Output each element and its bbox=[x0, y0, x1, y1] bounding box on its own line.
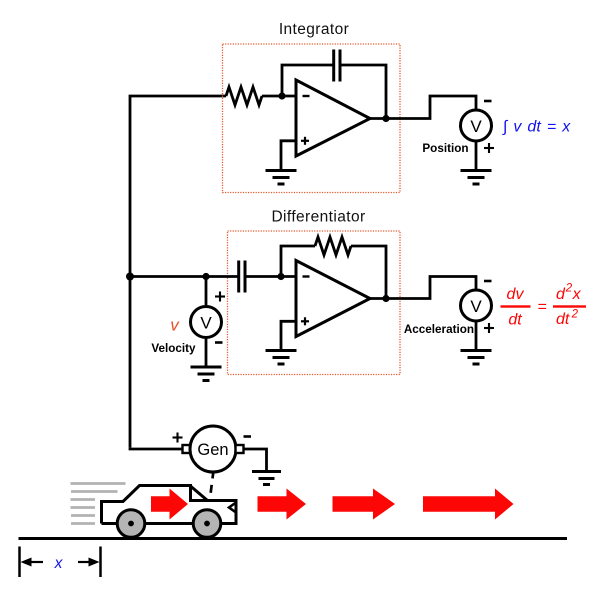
pin label minus U1 bbox=[303, 95, 310, 97]
svg-text:Gen: Gen bbox=[197, 441, 228, 459]
car right notch bbox=[229, 503, 236, 513]
svg-text:Position: Position bbox=[422, 142, 468, 155]
arrow 1 bbox=[258, 489, 307, 520]
wire integrator feedback right leg bbox=[340, 65, 386, 119]
svg-text:dt: dt bbox=[508, 312, 522, 329]
car rear window diagonal bbox=[191, 487, 208, 501]
label minus Position bbox=[484, 100, 492, 103]
op-amp U1 bbox=[296, 80, 370, 156]
ground Position bbox=[461, 171, 492, 185]
wire U2 noninverting to ground bbox=[281, 321, 296, 350]
wire differentiator output to Acceleration meter bbox=[370, 277, 476, 299]
capacitor C1 (integrator feedback) bbox=[334, 50, 340, 82]
resistor R2 (differentiator feedback) bbox=[315, 237, 351, 255]
svg-text:v: v bbox=[170, 316, 180, 335]
voltmeter Acceleration bbox=[461, 290, 492, 321]
svg-text:∫v dt = x: ∫v dt = x bbox=[502, 119, 571, 136]
wire integrator output to Position meter bbox=[370, 96, 476, 119]
wire Position meter to ground bbox=[475, 141, 478, 171]
node bus-differentiator tap bbox=[126, 273, 134, 281]
terminal square generator - bbox=[236, 445, 244, 453]
arrow 2 bbox=[333, 489, 396, 520]
wire differentiator feedback left leg bbox=[281, 246, 315, 277]
wire generator to ground bbox=[244, 449, 267, 472]
wheel rear bbox=[193, 510, 221, 538]
label minus generator bbox=[244, 435, 252, 438]
arrow 3 bbox=[423, 489, 514, 520]
terminal square generator + bbox=[183, 445, 191, 453]
dimension tick left bbox=[18, 547, 21, 578]
car body bbox=[102, 486, 237, 524]
wire integrator feedback left leg bbox=[282, 65, 333, 96]
node integrator output bbox=[382, 115, 389, 122]
node differentiator summing junction bbox=[277, 273, 284, 280]
svg-text:V: V bbox=[470, 117, 482, 136]
op-amp U2 bbox=[296, 261, 370, 337]
svg-text:x: x bbox=[54, 555, 64, 572]
node integrator summing junction bbox=[278, 92, 285, 99]
label plus Velocity bbox=[215, 292, 225, 302]
wire R1 to op-amp inverting input bbox=[262, 95, 296, 98]
differentiator dotted box bbox=[228, 231, 401, 375]
integrator dotted box bbox=[223, 44, 401, 193]
dimension arrow right bbox=[78, 561, 91, 563]
wire main bus vertical and integrator input horizontal bbox=[130, 96, 226, 448]
wire bus to generator bbox=[129, 448, 183, 451]
resistor R1 (integrator input) bbox=[226, 87, 262, 105]
formula dv/dt = d2x/dt2 bbox=[501, 283, 587, 329]
pin label plus U2 bbox=[301, 317, 309, 325]
ground U2 bbox=[266, 351, 297, 365]
svg-text:Acceleration: Acceleration bbox=[404, 323, 474, 336]
pin label minus U2 bbox=[303, 275, 310, 277]
svg-text:Velocity: Velocity bbox=[151, 342, 196, 355]
ground generator bbox=[252, 472, 281, 485]
wire tap to Velocity meter bbox=[205, 277, 208, 308]
wire Acceleration meter to ground bbox=[475, 321, 478, 351]
dashed link generator to wheel bbox=[207, 471, 214, 524]
generator Gen bbox=[190, 426, 236, 472]
pin label plus U1 bbox=[301, 137, 309, 145]
dimension tick right bbox=[99, 547, 102, 578]
ground Velocity bbox=[191, 367, 222, 381]
label plus Acceleration bbox=[484, 323, 494, 333]
svg-text:Differentiator: Differentiator bbox=[271, 209, 365, 226]
node differentiator output bbox=[382, 295, 389, 302]
svg-text:Integrator: Integrator bbox=[279, 21, 349, 38]
wire C2 to op-amp inverting input bbox=[245, 275, 296, 278]
wire bus to C2 bbox=[130, 275, 238, 278]
label plus Position bbox=[484, 143, 494, 153]
wire U1 noninverting to ground bbox=[281, 141, 296, 171]
label plus generator bbox=[173, 433, 183, 443]
voltmeter Velocity bbox=[191, 307, 222, 338]
svg-text:dt2: dt2 bbox=[556, 309, 579, 329]
wire Velocity meter to ground bbox=[205, 338, 208, 368]
capacitor C2 (differentiator input) bbox=[239, 261, 245, 293]
ground Acceleration bbox=[461, 351, 492, 365]
wheel front bbox=[117, 510, 145, 538]
svg-text:V: V bbox=[470, 297, 482, 316]
label minus Velocity bbox=[215, 341, 223, 344]
voltmeter Position bbox=[461, 110, 492, 141]
svg-text:dv: dv bbox=[507, 286, 525, 303]
arrow in car bbox=[151, 489, 188, 520]
svg-text:V: V bbox=[200, 314, 212, 333]
svg-text:=: = bbox=[537, 299, 546, 316]
svg-text:d2x: d2x bbox=[556, 283, 582, 304]
node velocity tap bbox=[202, 273, 209, 280]
road bbox=[19, 537, 568, 540]
wire differentiator feedback right leg bbox=[351, 246, 386, 299]
dimension arrow left bbox=[29, 561, 43, 563]
speed lines bbox=[71, 484, 126, 524]
label minus Acceleration bbox=[484, 280, 492, 283]
ground U1 bbox=[266, 171, 297, 185]
